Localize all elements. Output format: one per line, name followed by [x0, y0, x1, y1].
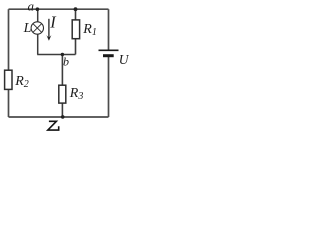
wire R1 branch lower	[75, 39, 77, 55]
wire right lower	[108, 57, 110, 118]
resistor R1	[72, 20, 79, 39]
caption 乙	[48, 121, 59, 130]
svg-text:b: b	[63, 55, 69, 69]
current arrow I	[46, 19, 51, 41]
wire R3 branch lower	[61, 103, 63, 117]
node bottom junction	[61, 115, 65, 119]
node junction top-left	[36, 7, 40, 11]
battery U short plate	[103, 54, 114, 57]
svg-text:a: a	[28, 0, 35, 13]
wire lamp branch upper	[37, 9, 39, 22]
resistor R2	[5, 70, 12, 89]
wire right upper	[108, 9, 110, 49]
wire R1 branch upper	[75, 9, 77, 20]
svg-text:R2: R2	[14, 74, 29, 90]
svg-text:I: I	[49, 13, 57, 32]
svg-text:R3: R3	[69, 86, 84, 102]
node b junction	[61, 53, 64, 56]
wire bottom	[9, 116, 109, 118]
svg-text:U: U	[119, 52, 129, 67]
wire top	[9, 8, 109, 10]
battery U long plate	[99, 49, 119, 51]
svg-text:R1: R1	[82, 22, 97, 38]
svg-text:L: L	[23, 21, 32, 36]
wire R3 branch upper	[61, 55, 63, 86]
lamp L	[31, 22, 43, 34]
wire lamp branch lower	[37, 34, 39, 55]
wire middle horizontal	[37, 54, 75, 56]
resistor R3	[59, 85, 66, 103]
node junction top-right	[74, 7, 78, 11]
wire left	[8, 9, 10, 117]
